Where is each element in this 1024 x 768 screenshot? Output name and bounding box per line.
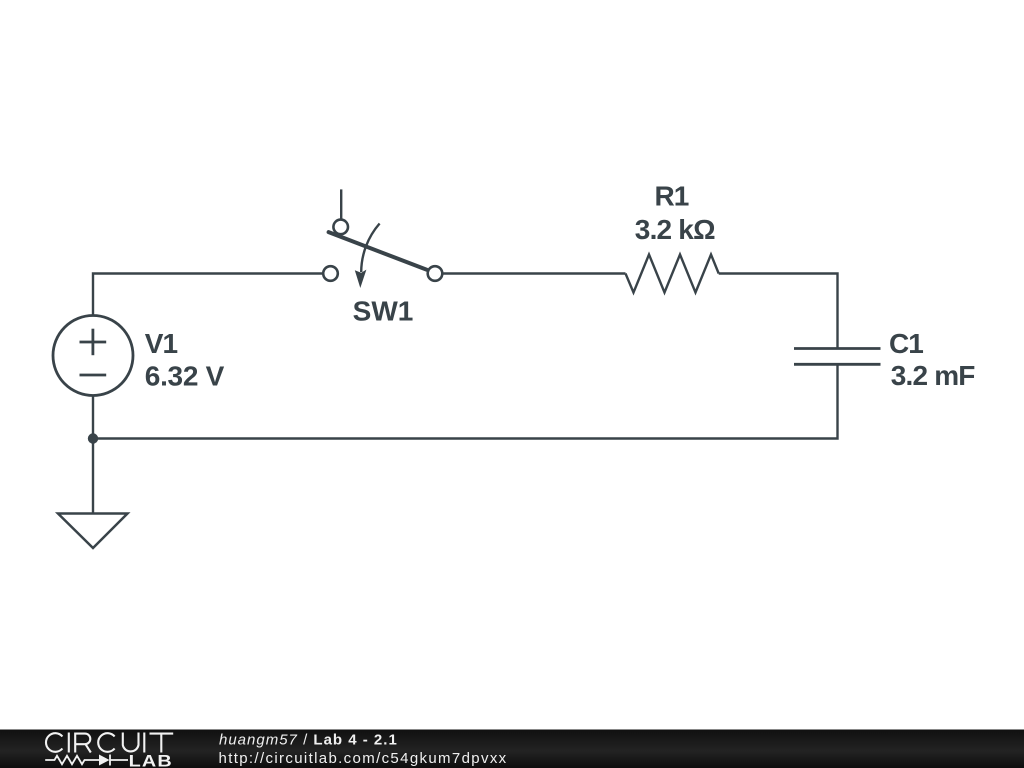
svg-text:LAB: LAB xyxy=(129,751,173,768)
svg-text:R1: R1 xyxy=(655,181,689,212)
svg-text:3.2 kΩ: 3.2 kΩ xyxy=(635,214,715,245)
svg-text:http://circuitlab.com/c54gkum7: http://circuitlab.com/c54gkum7dpvxx xyxy=(219,750,508,767)
svg-text:SW1: SW1 xyxy=(353,295,414,326)
svg-text:6.32 V: 6.32 V xyxy=(145,361,225,392)
svg-text:huangm57 / Lab 4 - 2.1: huangm57 / Lab 4 - 2.1 xyxy=(219,731,398,748)
svg-text:3.2 mF: 3.2 mF xyxy=(891,360,976,391)
svg-text:C1: C1 xyxy=(889,328,923,359)
svg-text:V1: V1 xyxy=(145,328,178,359)
